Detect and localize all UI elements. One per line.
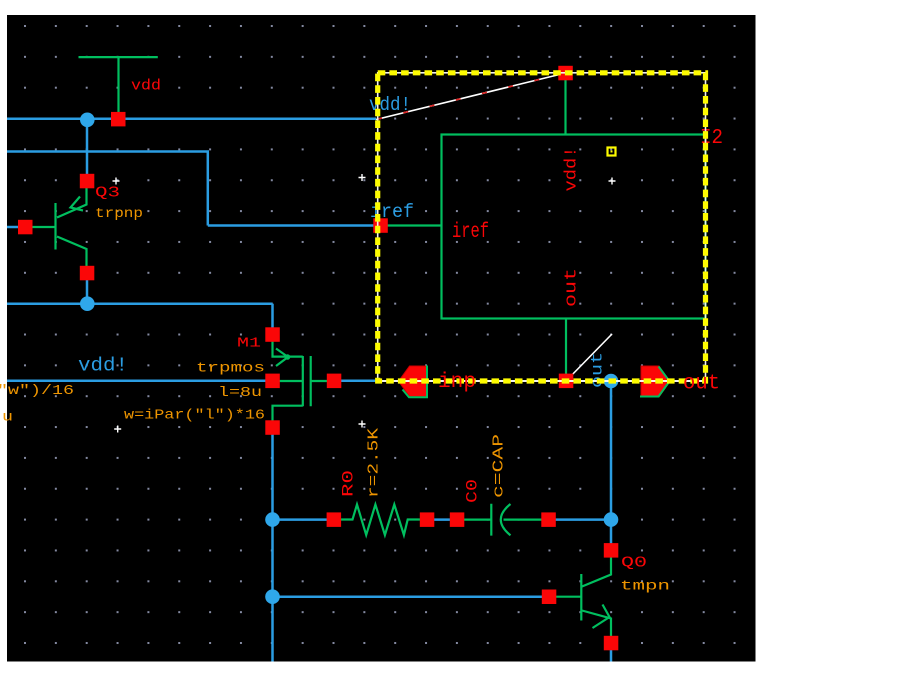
pin square Q3 base — [18, 220, 33, 235]
I2 out pin stem — [565, 319, 567, 378]
M1 source arrow dot — [285, 354, 291, 360]
rubber line out label — [567, 334, 612, 380]
junction dot RC row left — [265, 512, 280, 527]
schematic canvas background — [7, 15, 756, 662]
wire Q3 emitter to vdd bus — [86, 119, 89, 175]
junction dot out bus — [604, 374, 619, 389]
rubber line red dashes — [376, 73, 566, 120]
svg-text:w=iPar("l")*16: w=iPar("l")*16 — [124, 408, 265, 424]
marker cross 1 — [113, 178, 120, 185]
svg-text:R0: R0 — [340, 470, 358, 497]
capacitor C0 — [464, 504, 543, 536]
svg-text:iref: iref — [452, 221, 489, 244]
svg-text:u: u — [2, 410, 13, 426]
pin square I2 out — [559, 374, 574, 389]
svg-text:out: out — [683, 373, 720, 396]
Q0 emitter arrow — [593, 605, 610, 629]
pin square I2 vdd — [558, 66, 573, 81]
Q3 emitter arrow — [71, 197, 84, 211]
pin arrow out — [640, 366, 670, 397]
pin square Q0 collector — [604, 543, 619, 558]
wire out column vertical — [610, 381, 613, 544]
junction dot base row — [265, 589, 280, 604]
wire below Q0 emitter — [610, 649, 613, 662]
selection box yellow dashes — [378, 73, 706, 381]
I2 vdd pin stem — [564, 77, 566, 135]
svg-text:l=8u: l=8u — [218, 385, 262, 401]
pin square M1 drain — [265, 420, 280, 435]
svg-text:out: out — [563, 268, 582, 307]
wire net2 vertical — [207, 152, 210, 226]
svg-text:vdd!: vdd! — [563, 147, 582, 192]
pin square R0 right — [420, 512, 435, 527]
pin square M1 source — [265, 327, 280, 342]
svg-text:trpnp: trpnp — [95, 206, 143, 222]
svg-text:Q0: Q0 — [621, 555, 647, 572]
pin square vdd symbol — [111, 112, 126, 127]
pin square C0 right — [541, 512, 556, 527]
transistor M1 — [273, 341, 328, 421]
svg-text:M1: M1 — [237, 336, 261, 352]
pin arrow inp — [399, 366, 428, 398]
wire Q0 base row — [273, 595, 544, 598]
marker cross 4 — [114, 426, 121, 433]
pin square Q0 base — [542, 590, 557, 605]
svg-text:trpmos: trpmos — [196, 361, 265, 377]
svg-text:tmpn: tmpn — [620, 579, 670, 595]
wire vdd bus top — [7, 118, 376, 121]
pin square M1 bulk — [265, 374, 280, 389]
pin square Q3 emitter — [80, 174, 95, 189]
pin square Q3 collector — [80, 266, 95, 281]
grid dots — [10, 18, 752, 658]
pin square I2 iref — [373, 218, 388, 233]
marker cross 5 — [359, 421, 366, 428]
rubber line vdd label — [376, 73, 566, 120]
selection origin handle — [608, 148, 616, 156]
svg-text:r=2.5K: r=2.5K — [366, 428, 383, 498]
wire vdd row to M1 — [7, 302, 273, 305]
wire net2 horizontal upper — [7, 150, 209, 153]
M1 source arrow — [276, 349, 288, 367]
junction dot vdd row — [80, 296, 95, 311]
svg-text:inp: inp — [438, 371, 476, 394]
wire M1 gate to bus — [340, 380, 378, 383]
wire gate net left — [7, 380, 266, 383]
junction dot RC row right — [604, 512, 619, 527]
pin square R0 left — [327, 512, 342, 527]
wire C to out column — [555, 518, 611, 521]
selected wire white — [378, 380, 706, 382]
instance I2 symbol body — [442, 135, 706, 319]
marker cross 2 — [359, 174, 366, 181]
wire Q3 collector down — [86, 279, 89, 305]
pin square M1 gate — [327, 374, 342, 389]
marker cross 3 — [609, 178, 616, 185]
junction dot vdd bus — [80, 113, 95, 128]
svg-text:c=CAP: c=CAP — [491, 434, 508, 498]
selection box white underlay — [378, 73, 706, 381]
pin square C0 left — [450, 512, 465, 527]
I2 iref pin lead — [386, 224, 442, 226]
resistor R0 zigzag — [341, 505, 421, 536]
wire RC row left — [273, 518, 328, 521]
transistor Q0 — [555, 557, 611, 638]
vdd power symbol — [79, 57, 158, 112]
pin square Q0 emitter — [604, 636, 619, 651]
svg-text:Q3: Q3 — [95, 185, 120, 202]
svg-text:vdd: vdd — [131, 78, 161, 95]
transistor Q3 — [32, 188, 87, 267]
wire stub Q3 base left — [7, 226, 19, 229]
wire M1 drain column — [271, 434, 274, 662]
svg-text:vdd!: vdd! — [78, 355, 128, 377]
svg-text:C0: C0 — [464, 479, 482, 503]
wire net2 to iref pin — [208, 224, 377, 227]
svg-text:"w")/16: "w")/16 — [0, 383, 74, 399]
wire between R and C — [434, 518, 451, 521]
wire M1 source drop — [271, 304, 274, 328]
